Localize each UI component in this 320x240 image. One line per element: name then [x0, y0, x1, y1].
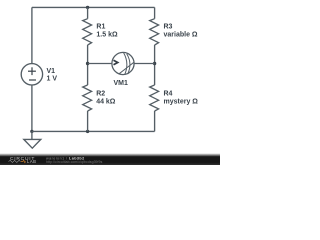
wire top rail	[32, 6, 155, 8]
resistor R3	[150, 19, 159, 45]
svg-text:44 kΩ: 44 kΩ	[96, 98, 116, 105]
voltage source V1	[21, 64, 42, 85]
resistor R4	[150, 85, 159, 111]
label R2 44 kΩ	[96, 91, 116, 106]
label V1 1 V	[47, 68, 58, 83]
voltmeter VM1	[112, 52, 134, 74]
svg-text:LAB: LAB	[27, 159, 36, 164]
label R1 1.5 kΩ	[96, 24, 118, 39]
wire VM1 right lead	[134, 63, 155, 65]
wire top rail to R1	[87, 7, 89, 18]
svg-text:V1: V1	[47, 68, 56, 75]
wire R3 to R4	[154, 45, 156, 85]
svg-text:R4: R4	[164, 91, 173, 98]
node junction at ground tap	[30, 130, 33, 133]
watermark CircuitLab logo	[9, 156, 37, 164]
svg-text:http://circuitlab.com/c/qlbcds: http://circuitlab.com/c/qlbcdsg39f9s	[46, 160, 103, 164]
node junction bottom of R2	[86, 130, 89, 133]
label R3 variable Ω	[164, 24, 198, 39]
wire R2 to bottom rail	[87, 111, 89, 131]
node junction VM1 right tap	[153, 62, 156, 65]
svg-text:mystery Ω: mystery Ω	[164, 98, 199, 105]
wire V1 bottom to ground rail	[31, 85, 33, 131]
resistor R2	[83, 85, 92, 111]
ground	[24, 131, 41, 148]
svg-text:VM1: VM1	[114, 80, 129, 87]
node junction top of R1	[86, 6, 89, 9]
wire R1 to R2	[87, 45, 89, 85]
node junction VM1 left tap	[86, 62, 89, 65]
wire R4 to bottom rail	[154, 111, 156, 131]
svg-text:R2: R2	[96, 91, 105, 98]
wire VM1 left lead	[88, 63, 112, 65]
watermark bar	[0, 153, 220, 165]
label R4 mystery Ω	[164, 91, 199, 106]
svg-text:variable Ω: variable Ω	[164, 32, 198, 39]
svg-text:R3: R3	[164, 24, 173, 31]
resistor R1	[83, 19, 92, 45]
wire bottom rail	[32, 130, 155, 132]
wire left vertical from top rail to V1	[31, 7, 33, 63]
svg-text:1.5 kΩ: 1.5 kΩ	[96, 31, 118, 38]
svg-text:1 V: 1 V	[47, 76, 58, 83]
svg-text:R1: R1	[96, 24, 105, 31]
wire top rail to R3	[154, 7, 156, 18]
